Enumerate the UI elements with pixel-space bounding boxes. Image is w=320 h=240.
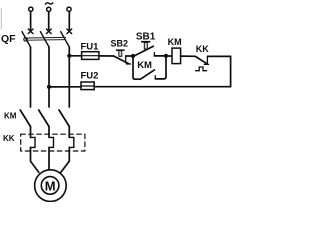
tilde AC mark bbox=[45, 3, 53, 4]
fuse FU2 bbox=[81, 82, 94, 90]
svg-text:FU1: FU1 bbox=[81, 41, 100, 52]
wire bottom return rail bbox=[94, 86, 230, 88]
wire phase A: KM to heater bbox=[30, 127, 32, 138]
circuit breaker QF pole 2 bbox=[40, 29, 51, 47]
wire phase A: heater to motor bbox=[31, 147, 39, 172]
wire phase C: KM to heater bbox=[68, 127, 70, 138]
svg-text:KM: KM bbox=[168, 37, 182, 47]
KM main contact pole 3 bbox=[59, 110, 69, 127]
wire L1 to QF bbox=[30, 12, 32, 30]
svg-text:SB2: SB2 bbox=[111, 38, 129, 48]
motor M bbox=[35, 170, 67, 202]
wire L2 to QF bbox=[48, 12, 50, 30]
svg-text:KK: KK bbox=[3, 134, 15, 143]
wire phase C: heater to motor bbox=[61, 147, 70, 172]
svg-text:KM: KM bbox=[4, 111, 17, 120]
AC source terminal L3 bbox=[67, 7, 71, 11]
wire phase B: QF to KM contact bbox=[48, 47, 50, 107]
pushbutton SB2 (stop, NC) bbox=[114, 49, 131, 64]
wire FU1 tap to fuse bbox=[69, 55, 81, 57]
AC source terminal L1 bbox=[29, 7, 33, 11]
KK heater element phase C bbox=[69, 137, 74, 147]
QF linkage bar bbox=[24, 37, 66, 41]
wire FU1 to SB2 bbox=[99, 55, 114, 57]
KM main contact pole 2 bbox=[39, 110, 49, 127]
pushbutton SB1 (start, NO) bbox=[134, 41, 154, 56]
wire FU2 to phase B tap bbox=[49, 86, 81, 88]
circuit breaker QF pole 3 bbox=[61, 29, 72, 47]
junction node FU2 tap on phase B bbox=[47, 85, 51, 89]
junction node A (SB2/SB1/KM aux) bbox=[131, 54, 135, 58]
svg-text:KM: KM bbox=[137, 60, 152, 71]
svg-text:FU2: FU2 bbox=[81, 71, 99, 82]
svg-text:M: M bbox=[45, 178, 56, 193]
svg-text:SB1: SB1 bbox=[136, 31, 156, 42]
svg-text:QF: QF bbox=[1, 33, 16, 45]
circuit breaker QF pole 1 bbox=[22, 29, 33, 47]
KM main contact pole 1 bbox=[20, 110, 30, 127]
contactor coil KM bbox=[166, 48, 195, 64]
thermal relay contact KK (NC) bbox=[195, 56, 208, 70]
wire L3 to QF bbox=[68, 12, 70, 30]
wire right rail down bbox=[230, 56, 232, 86]
KK dashed enclosure bbox=[21, 134, 85, 151]
AC source terminal L2 bbox=[47, 7, 51, 11]
wire phase A: QF to KM contact bbox=[30, 47, 32, 107]
fuse FU1 bbox=[82, 52, 99, 60]
wire KK to right rail bbox=[207, 55, 230, 57]
svg-text:KK: KK bbox=[196, 44, 209, 54]
junction node FU1 tap on phase C bbox=[67, 54, 71, 58]
KK heater element phase B bbox=[49, 137, 54, 147]
wire SB2 to node A bbox=[126, 55, 133, 57]
KM auxiliary self-hold contact branch bbox=[133, 56, 166, 79]
wire SB1 to node B bbox=[154, 55, 166, 57]
KK heater element phase A bbox=[31, 137, 36, 147]
wire phase B: KM to heater bbox=[48, 127, 50, 138]
wire phase C: QF to KM contact bbox=[68, 47, 70, 107]
wire phase B: heater to motor bbox=[48, 147, 50, 169]
junction node B (SB1/KM aux/coil) bbox=[164, 54, 168, 58]
scan artifact left edge bbox=[1, 8, 2, 29]
